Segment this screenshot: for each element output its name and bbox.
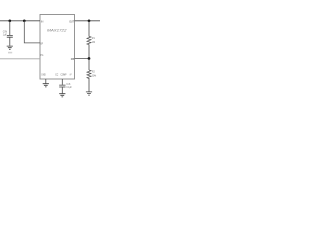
svg-text:634k: 634k bbox=[92, 75, 97, 78]
ground (under R2) bbox=[86, 92, 92, 95]
node A (junction dot at CIN) bbox=[8, 19, 11, 22]
svg-text:1µF: 1µF bbox=[3, 33, 7, 36]
wire GND pin bbox=[45, 79, 47, 83]
svg-text:0.1µF: 0.1µF bbox=[66, 86, 72, 89]
wire R2 to ground bbox=[88, 78, 90, 92]
ground (under C1) bbox=[7, 46, 13, 49]
resistor R2 bbox=[87, 70, 91, 78]
op-amp U1 (regulator IC body) bbox=[40, 15, 75, 80]
wire CC pin to C2 bbox=[61, 79, 63, 85]
wire C2 to ground bbox=[61, 87, 63, 93]
svg-text:IN: IN bbox=[41, 19, 44, 23]
ground (under C2) bbox=[59, 94, 65, 97]
resistor R1 bbox=[87, 36, 91, 44]
node B (junction dot at SHDN branch) bbox=[23, 19, 26, 22]
wire FB node to R2 bbox=[88, 59, 90, 71]
wire C1 to ground bbox=[9, 37, 11, 46]
svg-text:CC: CC bbox=[55, 74, 58, 77]
svg-text:R2: R2 bbox=[92, 71, 96, 74]
capacitor C2 bbox=[59, 85, 65, 87]
svg-text:FB: FB bbox=[71, 57, 74, 61]
ground (under GND pin) bbox=[43, 84, 49, 87]
svg-text:BP: BP bbox=[41, 43, 44, 46]
svg-text:1M: 1M bbox=[92, 41, 95, 44]
wire FB bbox=[75, 58, 90, 60]
svg-text:MAX1722: MAX1722 bbox=[47, 29, 66, 33]
capacitor C1 bbox=[7, 35, 13, 37]
node C (junction dot at R1 top) bbox=[88, 19, 91, 22]
svg-text:OUT: OUT bbox=[69, 19, 74, 23]
node D (junction dot at FB divider) bbox=[88, 57, 91, 60]
wire OUT to R1 bbox=[88, 21, 90, 37]
svg-text:R1: R1 bbox=[92, 37, 96, 40]
wire VOUT top right bbox=[75, 20, 101, 22]
svg-text:PG: PG bbox=[40, 54, 43, 57]
wire CIN lead bbox=[9, 21, 11, 35]
wire R1 to FB node bbox=[88, 45, 90, 59]
svg-text:AP: AP bbox=[70, 74, 72, 77]
wire VIN top bbox=[0, 20, 40, 22]
wire SHDN branch bbox=[24, 21, 40, 43]
svg-text:COMP: COMP bbox=[61, 74, 67, 77]
wire POK (lower-left) bbox=[0, 58, 40, 60]
svg-text:GND: GND bbox=[41, 74, 46, 77]
node label (faint net name above POK wire) bbox=[8, 52, 12, 54]
